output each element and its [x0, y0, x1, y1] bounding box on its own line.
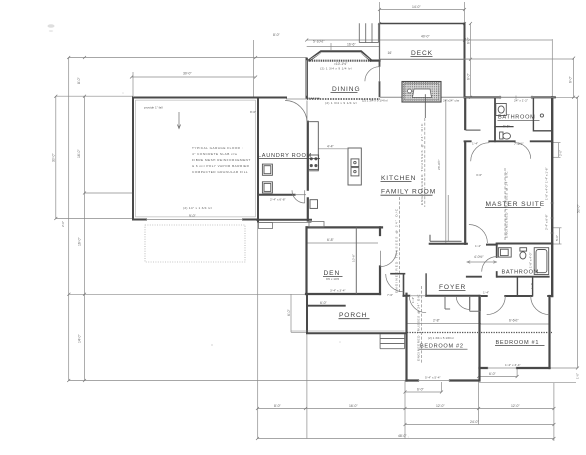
svg-text:2'-4" x 6'-8": 2'-4" x 6'-8"	[270, 198, 286, 202]
left dim column	[69, 57, 307, 59]
svg-text:6'-0": 6'-0"	[467, 36, 471, 44]
dashed / dotted reference lines	[145, 99, 552, 363]
svg-text:≈10'-1½": ≈10'-1½"	[334, 62, 348, 66]
svg-text:5'-10½": 5'-10½"	[313, 40, 325, 44]
house east wall	[551, 97, 553, 296]
porch west wall	[306, 294, 308, 333]
bath1 toilet	[500, 132, 503, 139]
svg-text:40'-0": 40'-0"	[421, 35, 430, 39]
bed1 doors	[487, 296, 506, 315]
windows	[550, 203, 554, 233]
porch steps	[380, 334, 405, 349]
right column	[577, 97, 579, 368]
svg-text:16'-6": 16'-6"	[347, 43, 356, 47]
rotated dimension texts	[52, 36, 581, 379]
svg-text:ENGINEERED TRUSSES @ 24" O/C: ENGINEERED TRUSSES @ 24" O/C	[417, 294, 421, 361]
kitchen counter	[309, 122, 318, 171]
svg-text:30'-0": 30'-0"	[183, 72, 192, 76]
porch south wall	[307, 332, 405, 334]
svg-text:24"x24" c/w: 24"x24" c/w	[443, 98, 460, 102]
svg-text:ENGINEERED TRUSSES @ 24" O/C: ENGINEERED TRUSSES @ 24" O/C	[420, 123, 424, 205]
kitchen south / den north wall	[307, 226, 382, 228]
bed2 door	[409, 296, 426, 313]
svg-text:7'-6": 7'-6"	[387, 293, 393, 297]
svg-text:4'-0½": 4'-0½"	[474, 255, 484, 259]
provide fall arrow	[177, 112, 180, 129]
svg-text:1'-6" x 4'-0": 1'-6" x 4'-0"	[529, 252, 533, 268]
svg-text:6'-0": 6'-0"	[489, 372, 497, 376]
garage	[133, 98, 258, 222]
svg-text:2'-0": 2'-0"	[61, 221, 65, 227]
svg-text:4" CONCRETE SLAB c/w: 4" CONCRETE SLAB c/w	[192, 152, 238, 156]
deck east wall	[464, 24, 466, 98]
svg-text:KITCHEN: KITCHEN	[381, 175, 416, 182]
kitchen west wall	[307, 122, 309, 221]
bathroom1 vanity divider	[495, 126, 513, 128]
svg-text:FAMILY ROOM: FAMILY ROOM	[381, 189, 436, 196]
svg-text:1'-4" x 1'-6": 1'-4" x 1'-6"	[545, 167, 549, 183]
thin opening lines (windows / garage door)	[146, 10, 574, 381]
kitchen island	[348, 148, 361, 185]
svg-text:12'-0": 12'-0"	[436, 404, 445, 408]
engineered trusses rotated notes	[395, 123, 509, 361]
fixtures	[262, 104, 548, 275]
foyer closet door	[456, 296, 470, 310]
bay window	[310, 52, 371, 60]
interior thin partitions	[259, 23, 481, 348]
svg-text:1'-4": 1'-4"	[483, 291, 489, 295]
svg-text:& 6 mil POLY VAPOR BARRIER: & 6 mil POLY VAPOR BARRIER	[192, 164, 250, 168]
svg-text:1'-0": 1'-0"	[576, 373, 580, 379]
master suite south wall	[487, 244, 552, 245]
laundry north wall	[258, 97, 286, 99]
dimension texts	[183, 5, 528, 438]
bedroom1 south wall	[480, 367, 550, 369]
small right dim 5'-0"	[559, 228, 561, 244]
bedroom2 west wall	[405, 294, 407, 381]
svg-text:9'-6": 9'-6"	[503, 125, 511, 129]
deck stairs	[359, 23, 378, 42]
dining-deck door	[365, 67, 380, 82]
bath2 vanity	[498, 248, 511, 257]
garage step to mud hall	[309, 222, 324, 228]
svg-text:6'-8": 6'-8"	[327, 238, 335, 242]
bedroom truss dotted line	[407, 332, 478, 334]
svg-text:14'-0": 14'-0"	[412, 5, 421, 9]
svg-text:3'-6": 3'-6"	[476, 173, 482, 177]
svg-text:16'-0": 16'-0"	[78, 237, 82, 246]
den door	[381, 251, 397, 267]
svg-text:(2) 1 3/4 x 9 1/4 lvl: (2) 1 3/4 x 9 1/4 lvl	[325, 101, 357, 105]
den west wall	[305, 227, 307, 294]
bedroom1 east wall	[548, 296, 550, 368]
deck right dim	[470, 24, 472, 98]
foyer closets	[445, 296, 470, 310]
svg-text:6'-0": 6'-0"	[417, 388, 425, 392]
svg-text:ENGINEERED TRUSSES @ 24" O/C: ENGINEERED TRUSSES @ 24" O/C	[395, 208, 399, 293]
den interior partition	[355, 227, 357, 294]
svg-text:8'-0": 8'-0"	[77, 76, 81, 84]
svg-text:16'-0": 16'-0"	[77, 149, 81, 158]
bath2 tub	[534, 248, 549, 275]
svg-text:DECK: DECK	[411, 50, 433, 57]
svg-text:6'-0": 6'-0"	[287, 308, 291, 316]
svg-text:16': 16'	[388, 51, 393, 55]
svg-text:5'-0": 5'-0"	[555, 235, 559, 241]
bath2 toilet	[520, 248, 527, 251]
bath1 vanity + sink	[496, 104, 507, 116]
bathroom1 south wall	[465, 140, 553, 142]
porch inner wall	[307, 305, 345, 307]
room labels	[258, 50, 545, 350]
svg-text:6'-0": 6'-0"	[320, 301, 328, 305]
svg-text:2'-4" x 6'-8": 2'-4" x 6'-8"	[545, 214, 549, 230]
stairwell near foyer	[445, 100, 447, 243]
svg-text:provide 1" fall: provide 1" fall	[144, 106, 163, 110]
svg-text:7'-6½": 7'-6½"	[514, 142, 524, 146]
bathroom1 west wall	[494, 98, 496, 141]
svg-text:(2) 1 3/4 x 9 1/4 lvl: (2) 1 3/4 x 9 1/4 lvl	[362, 98, 388, 102]
svg-text:16'-0": 16'-0"	[349, 404, 358, 408]
house north wall right section	[465, 96, 555, 98]
vestibule	[403, 274, 405, 296]
bathroom2 south wall	[467, 276, 549, 278]
hall south wall	[430, 243, 467, 245]
bay dims	[307, 46, 380, 48]
top deck dims	[380, 9, 465, 11]
svg-text:LAUNDRY ROOM: LAUNDRY ROOM	[258, 153, 312, 159]
dining-laundry door	[285, 101, 307, 123]
mudhall-kitchen door	[292, 190, 305, 203]
svg-text:(2) 14" x 1 3/4 lvl: (2) 14" x 1 3/4 lvl	[183, 206, 212, 210]
fireplace	[402, 82, 441, 119]
svg-text:23'-9½": 23'-9½"	[437, 160, 441, 170]
svg-text:14'-0": 14'-0"	[78, 334, 82, 343]
svg-text:COMPACTED GRANULAR FILL: COMPACTED GRANULAR FILL	[192, 170, 248, 174]
svg-text:48'-0" ,: 48'-0" ,	[398, 434, 409, 438]
vertical truss dashed lines	[424, 118, 426, 207]
svg-text:1'-4": 1'-4"	[411, 297, 415, 303]
svg-text:FOYER: FOYER	[439, 284, 466, 291]
svg-text:6'-6½": 6'-6½"	[509, 318, 519, 322]
svg-text:50'-0": 50'-0"	[577, 204, 581, 213]
svg-text:FIBRE MESH REINFORCEMENT: FIBRE MESH REINFORCEMENT	[192, 158, 251, 162]
svg-text:BATHROOM: BATHROOM	[502, 270, 540, 276]
interior small dims	[318, 148, 347, 150]
dining west wall	[306, 59, 308, 98]
laundry washer dryer	[262, 164, 272, 175]
closet shelf line	[466, 129, 480, 131]
garage apron dotted rectangle	[145, 225, 245, 262]
svg-text:TYPICAL GARAGE FLOOR :: TYPICAL GARAGE FLOOR :	[192, 146, 243, 150]
svg-text:BATHROOM: BATHROOM	[498, 115, 536, 121]
svg-text:ENGINEERED TRUSSES @ 24" O/C: ENGINEERED TRUSSES @ 24" O/C	[505, 171, 509, 238]
dining beam dotted	[307, 98, 380, 100]
svg-text:BEDROOM #2: BEDROOM #2	[420, 344, 464, 350]
walls	[133, 24, 555, 381]
svg-text:5'-4" x 5'-4": 5'-4" x 5'-4"	[425, 376, 441, 380]
bottom dims	[258, 408, 554, 410]
svg-text:(2) 1 3/4 x 9 1/4 lvl: (2) 1 3/4 x 9 1/4 lvl	[320, 67, 352, 71]
bed1 NE closet walls	[517, 277, 532, 296]
svg-text:10'-6": 10'-6"	[352, 254, 356, 262]
master suite entry door	[469, 225, 488, 244]
svg-text:(2) 1 3/4 x 5 1/8 lvl: (2) 1 3/4 x 5 1/8 lvl	[428, 336, 454, 340]
door arcs	[285, 67, 549, 315]
bath1 closet circle	[540, 114, 543, 117]
family room east / master west wall	[464, 97, 466, 244]
svg-text:6'-0": 6'-0"	[569, 75, 573, 83]
far top right	[573, 58, 575, 97]
svg-text:BEDROOM #1: BEDROOM #1	[496, 340, 540, 346]
svg-text:8'-0": 8'-0"	[273, 33, 281, 37]
svg-text:24" x 1'-2": 24" x 1'-2"	[514, 98, 528, 102]
svg-text:4'-4": 4'-4"	[327, 145, 335, 149]
bath1 doors	[471, 143, 490, 162]
svg-text:8'-0": 8'-0"	[274, 404, 282, 408]
svg-text:DINING: DINING	[332, 86, 360, 93]
svg-text:1'-4" x 3'-4": 1'-4" x 3'-4"	[505, 363, 521, 367]
laundry south wall	[258, 194, 295, 196]
bedroom2 south wall	[407, 379, 479, 381]
svg-text:1'-4": 1'-4"	[475, 244, 481, 248]
svg-text:24'-0": 24'-0"	[470, 420, 479, 424]
svg-text:PORCH: PORCH	[339, 312, 367, 319]
svg-text:1'-4": 1'-4"	[472, 142, 478, 146]
bathroom2 west wall	[496, 244, 498, 277]
bedroom1 north wall	[480, 295, 553, 297]
bedroom1 west wall	[478, 296, 480, 381]
faint scan smudges	[48, 24, 341, 346]
svg-text:3'-4" x 3'-4": 3'-4" x 3'-4"	[330, 289, 346, 293]
svg-text:1'-4": 1'-4"	[530, 283, 534, 289]
foyer / bedroom2 north wall	[404, 295, 480, 297]
svg-text:9'6 x 10'6: 9'6 x 10'6	[326, 277, 339, 281]
svg-text:6'-0": 6'-0"	[467, 72, 471, 80]
bath2 door	[482, 257, 497, 272]
garage notes	[144, 106, 256, 175]
svg-text:9'-0": 9'-0"	[189, 214, 197, 218]
svg-text:1'-6" x 4'-0": 1'-6" x 4'-0"	[545, 184, 549, 200]
svg-text:30'-0": 30'-0"	[52, 153, 56, 162]
svg-text:8'-0": 8'-0"	[250, 110, 256, 114]
mud hall south wall	[257, 219, 311, 221]
porch edge thin line	[291, 330, 405, 332]
den south wall	[306, 293, 380, 295]
svg-text:MASTER SUITE: MASTER SUITE	[486, 201, 546, 208]
den east wall	[379, 227, 381, 294]
deck north wall	[380, 23, 465, 25]
svg-text:12'-0": 12'-0"	[511, 404, 520, 408]
hall-porch door	[386, 274, 404, 292]
bathroom1 closet	[533, 98, 550, 130]
svg-text:2'-0": 2'-0"	[559, 150, 563, 156]
svg-text:2'-8": 2'-8"	[433, 319, 441, 323]
